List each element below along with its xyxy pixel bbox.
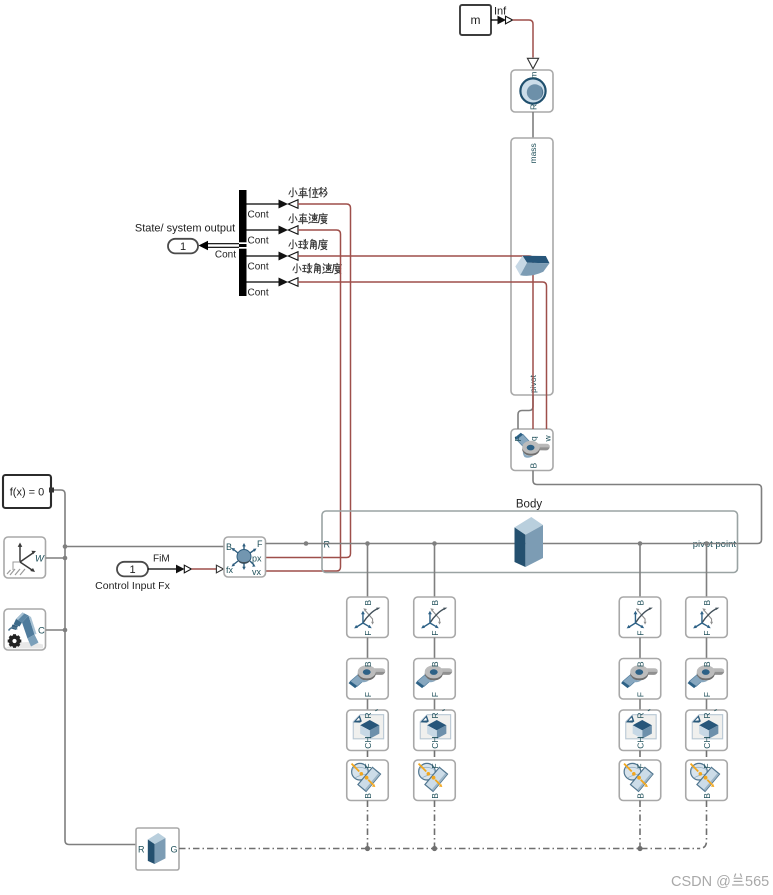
svg-text:Body: Body xyxy=(516,499,542,511)
junction geometry wheel3 xyxy=(637,846,642,851)
svg-text:G: G xyxy=(171,845,178,855)
svg-text:f(x) = 0: f(x) = 0 xyxy=(10,487,45,499)
arrow filled xyxy=(498,16,507,25)
svg-text:C: C xyxy=(38,626,45,637)
svg-text:CSDN @: CSDN @ xyxy=(671,874,731,890)
svg-text:State/ system output: State/ system output xyxy=(135,223,235,235)
svg-text:W: W xyxy=(35,554,45,565)
svg-text:F: F xyxy=(257,539,263,549)
svg-text:FiM: FiM xyxy=(153,554,170,565)
svg-text:1: 1 xyxy=(129,564,135,576)
wire control out xyxy=(148,568,177,570)
sixdof joint block xyxy=(224,537,266,577)
label cart velocity xyxy=(289,213,327,224)
svg-text:m: m xyxy=(529,72,539,79)
svg-text:Cont: Cont xyxy=(248,210,269,221)
svg-text:R: R xyxy=(529,104,539,110)
block cart body tall xyxy=(511,138,553,395)
mux input 2 xyxy=(247,226,299,247)
svg-text:pivot point: pivot point xyxy=(693,539,737,550)
body brick icon xyxy=(515,517,544,567)
arrow open down xyxy=(527,58,538,69)
svg-text:m: m xyxy=(471,13,481,27)
junction geometry wheel2 xyxy=(432,846,437,851)
wire m out xyxy=(491,19,498,21)
wire R line xyxy=(266,543,738,545)
wire red px to mux1 xyxy=(266,204,351,558)
brick horizontal icon xyxy=(523,256,550,264)
junction geometry wheel1 xyxy=(365,846,370,851)
wire pivot to F xyxy=(518,395,533,429)
wheel column 1 xyxy=(347,544,389,801)
block sphere solid xyxy=(511,70,553,112)
wire red q to mux3 xyxy=(298,256,533,429)
svg-text:Control Input Fx: Control Input Fx xyxy=(95,580,170,592)
mux input 1 xyxy=(247,200,299,221)
svg-text:w: w xyxy=(543,435,553,443)
block revolute joint pivot xyxy=(511,429,553,471)
label ball angular velocity xyxy=(293,263,341,274)
svg-text:px: px xyxy=(252,554,262,564)
svg-text:Cont: Cont xyxy=(215,250,236,261)
wire joint B to body pivot point xyxy=(533,471,762,544)
junction node R1 xyxy=(304,541,309,546)
svg-text:R: R xyxy=(138,845,145,855)
inport oval Control Input Fx xyxy=(117,562,148,577)
junction node wheel2 xyxy=(432,541,437,546)
svg-text:q: q xyxy=(529,436,539,441)
wire red w to mux4 xyxy=(298,282,547,429)
svg-text:565: 565 xyxy=(745,874,769,890)
wire red vx to mux2 xyxy=(266,230,341,571)
big Body block xyxy=(322,499,738,573)
wire sphere to mass xyxy=(532,112,534,138)
machine environment block xyxy=(4,609,46,650)
world frame block xyxy=(4,537,46,578)
label cart position xyxy=(289,187,327,197)
svg-text:fx: fx xyxy=(226,565,234,575)
mux block xyxy=(239,190,247,296)
svg-text:F: F xyxy=(513,436,523,441)
junction node B xyxy=(63,544,68,549)
junction node wheel4 xyxy=(704,541,709,546)
wheel column 3 xyxy=(619,544,661,801)
solver block f(x)=0 xyxy=(3,475,54,508)
label ball angle xyxy=(289,239,327,250)
wire C to node xyxy=(46,629,66,631)
svg-text:mass: mass xyxy=(528,143,538,163)
wire red control to fx xyxy=(191,568,216,570)
wire mux to outport double xyxy=(207,244,239,248)
constant block m xyxy=(460,5,491,35)
wire solver down xyxy=(54,490,136,845)
svg-text:Cont: Cont xyxy=(248,288,269,299)
junction node W xyxy=(63,556,68,561)
junction node wheel3 xyxy=(638,541,643,546)
ground solid block xyxy=(136,828,179,870)
wheel column 4 xyxy=(686,544,728,801)
svg-text:vx: vx xyxy=(252,567,262,577)
svg-text:Cont: Cont xyxy=(248,262,269,273)
svg-text:R: R xyxy=(324,540,331,550)
wire node to sixdof B xyxy=(65,546,224,548)
mux input 3 xyxy=(247,252,299,273)
svg-text:B: B xyxy=(226,542,232,552)
junction node wheel1 xyxy=(365,541,370,546)
wheel column 2 xyxy=(414,544,456,801)
svg-text:1: 1 xyxy=(180,241,186,253)
arrow open xyxy=(506,16,513,24)
junction node C xyxy=(63,628,68,633)
outport oval 1 State/ system output xyxy=(168,239,198,254)
watermark xyxy=(671,874,769,890)
wire geometry ground to wheels xyxy=(179,848,699,850)
svg-text:B: B xyxy=(529,463,539,469)
svg-text:Cont: Cont xyxy=(248,236,269,247)
mux input 4 xyxy=(247,278,299,299)
wire W to node xyxy=(46,557,66,559)
wire red m to sphere xyxy=(513,20,533,58)
